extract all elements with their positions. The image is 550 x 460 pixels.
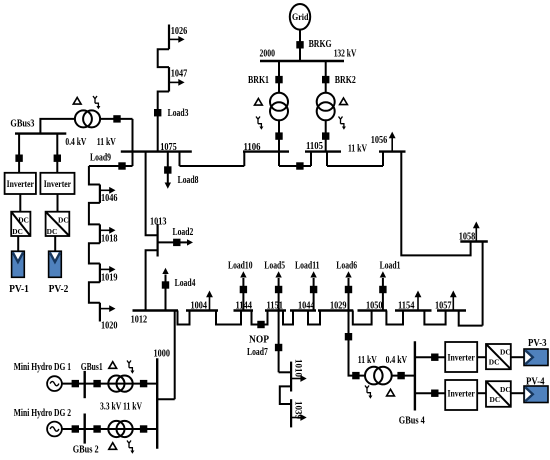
delta T-DG2 xyxy=(109,443,117,450)
transformer T1 xyxy=(270,93,288,111)
breaker on 11kV line xyxy=(113,115,120,122)
breaker Load2 xyxy=(173,239,180,246)
svg-text:1151: 1151 xyxy=(267,300,284,311)
svg-text:Grid: Grid xyxy=(292,13,309,23)
bus 1047 xyxy=(168,67,170,91)
svg-text:Load6: Load6 xyxy=(336,261,357,272)
wire T to GBus4 xyxy=(392,375,415,377)
svg-text:GBus3: GBus3 xyxy=(10,118,34,129)
wire 1019 to 1020 xyxy=(89,282,100,302)
bus 1050 xyxy=(358,309,388,311)
wire 1105 to 1056 link xyxy=(327,165,383,167)
bus 1020 xyxy=(99,303,101,322)
wire GBus3 drop left to inverter 1 xyxy=(18,134,20,173)
svg-text:BRK2: BRK2 xyxy=(335,75,356,86)
svg-text:0.4 kV: 0.4 kV xyxy=(65,137,87,148)
wye ground T-GBus4 xyxy=(365,386,372,399)
svg-text:DC: DC xyxy=(500,347,511,356)
wye ground GBus3 transformer xyxy=(93,96,100,109)
svg-text:GBus1: GBus1 xyxy=(81,362,103,373)
wire 1018 to 1019 xyxy=(89,243,100,263)
svg-text:DC: DC xyxy=(12,227,23,236)
svg-text:1000: 1000 xyxy=(154,348,171,359)
bus 1000 xyxy=(156,358,158,448)
PV-4 panel xyxy=(524,376,548,402)
svg-text:GBus 2: GBus 2 xyxy=(73,444,99,455)
svg-text:1026: 1026 xyxy=(171,26,188,37)
delta T-GBus4 xyxy=(387,389,395,396)
wire U-link 1050 to 1154 xyxy=(386,311,403,325)
delta T1 xyxy=(255,99,263,106)
bus 1106 xyxy=(243,150,289,152)
wire drop to bus 1075 and Load9 line xyxy=(132,119,134,166)
load Load5 xyxy=(264,261,285,311)
wire U-link 1057 to 1058 riser xyxy=(459,311,483,326)
svg-text:Load5: Load5 xyxy=(264,261,285,272)
arrow up on 1056 xyxy=(389,132,396,152)
wire U-link 1144 to 1151 with NOP xyxy=(252,311,268,325)
wire 1026 to 1047 xyxy=(158,49,169,67)
breaker on 1029 drop xyxy=(345,333,352,340)
PV-1 panel xyxy=(9,251,29,295)
svg-text:1044: 1044 xyxy=(298,300,315,311)
wire U-link 1004 to 1144 xyxy=(216,311,241,325)
arrow up on 1058 xyxy=(473,222,480,242)
breaker Load8 xyxy=(164,166,171,173)
wire branch BRK1 xyxy=(278,61,280,93)
svg-text:Mini Hydro DG 1: Mini Hydro DG 1 xyxy=(14,362,71,373)
wire inverter1 to dcdc1 xyxy=(19,194,21,212)
wire tie rise to 1105 xyxy=(310,152,312,166)
breaker inverter 2 xyxy=(54,155,61,162)
svg-text:11 kV: 11 kV xyxy=(348,143,368,154)
bus 1029 xyxy=(318,309,353,311)
svg-text:1020: 1020 xyxy=(101,321,118,332)
svg-text:Load9: Load9 xyxy=(90,152,111,163)
bus GBus1 xyxy=(83,371,85,398)
svg-text:DC: DC xyxy=(500,385,511,394)
wire 1106 to 1075 link xyxy=(180,165,245,167)
wire 1047 to bus 1075 xyxy=(158,92,169,152)
breaker Load7 xyxy=(275,344,282,351)
wire DG2 row xyxy=(62,428,157,430)
wire 1058 riser down to chain xyxy=(482,242,484,326)
transformer T2 xyxy=(317,93,335,111)
svg-text:1056: 1056 xyxy=(371,135,388,146)
bus 1044 xyxy=(290,309,316,311)
svg-text:DC: DC xyxy=(58,216,69,225)
bus 1154 xyxy=(395,309,432,311)
wire 1056 down to 1058 xyxy=(401,152,470,256)
wire to bus 1010 xyxy=(279,371,292,373)
svg-text:DC: DC xyxy=(18,216,29,225)
bus 1151 xyxy=(265,309,286,311)
svg-text:1154: 1154 xyxy=(398,300,415,311)
svg-text:Load10: Load10 xyxy=(228,261,253,272)
arrow feeder 1046 xyxy=(100,187,116,194)
breaker DG2-GBus2 xyxy=(72,425,79,432)
arrow feeder 1019 xyxy=(100,266,116,273)
dc-dc converter 2 xyxy=(46,212,70,236)
breaker BRK1 xyxy=(275,76,282,83)
wire U-link 1012 to 1004 xyxy=(178,311,190,325)
bus GBus3 xyxy=(15,132,66,134)
bus 1012 xyxy=(133,309,179,311)
svg-text:Load3: Load3 xyxy=(168,108,189,119)
svg-text:0.4 kV: 0.4 kV xyxy=(386,355,408,366)
svg-text:PV-2: PV-2 xyxy=(49,284,69,295)
breaker T-GBus4 0.4kV xyxy=(397,372,404,379)
svg-text:1010: 1010 xyxy=(293,359,303,378)
wire Load2 xyxy=(158,241,174,243)
bus 1026 xyxy=(168,25,170,50)
arrow up on 1057 xyxy=(450,291,457,311)
wire T 11kV side xyxy=(100,118,132,120)
wire T1 to bus 1106 xyxy=(278,120,280,151)
wire Load9 line xyxy=(89,165,133,167)
bus 1105 xyxy=(305,150,341,152)
svg-text:DC: DC xyxy=(47,227,58,236)
wire inverter3 to dcdc3 xyxy=(477,356,486,358)
wye ground T-DG1 xyxy=(127,361,134,374)
svg-text:Mini Hydro DG 2: Mini Hydro DG 2 xyxy=(14,408,71,419)
wire 1075 down to 1013 xyxy=(146,152,158,236)
breaker below T2 xyxy=(322,132,329,139)
wire DG1 row xyxy=(62,383,157,385)
wire 1106 left drop xyxy=(243,152,245,166)
svg-text:Load11: Load11 xyxy=(295,261,320,272)
wire dcdc4 to PV-4 xyxy=(511,392,524,394)
svg-text:NOP: NOP xyxy=(249,334,269,345)
transformer T-DG1 xyxy=(108,376,132,392)
svg-text:Inverter: Inverter xyxy=(7,179,34,189)
delta T2 xyxy=(340,98,348,105)
wire Grid to bus 2000 xyxy=(299,30,301,61)
breaker tie xyxy=(296,162,303,169)
wire U-link 1029 to 1050 xyxy=(353,311,372,325)
generator Mini Hydro DG 2 xyxy=(47,422,62,437)
svg-text:1047: 1047 xyxy=(171,68,188,79)
transformer T-GBus4 xyxy=(365,367,392,385)
dc-dc converter 3 xyxy=(486,344,511,369)
svg-text:Load4: Load4 xyxy=(175,278,196,289)
bus 1019 xyxy=(99,264,101,283)
arrow feeder 1018 xyxy=(100,227,116,234)
breaker NOP xyxy=(257,321,264,328)
breaker Load3 xyxy=(154,109,161,116)
wire Load7 drop from 1151 xyxy=(278,311,280,373)
wire dcdc2 to PV-2 xyxy=(54,236,56,251)
wire 1010 to 1039 xyxy=(280,386,291,404)
wire tie line 1106-1105 xyxy=(279,165,311,167)
svg-text:PV-3: PV-3 xyxy=(528,338,547,349)
wire T to GBus3 xyxy=(40,119,75,134)
wire GBus4 to inverter 3 xyxy=(415,356,445,358)
svg-text:1105: 1105 xyxy=(306,141,323,152)
wire 1013 to bus 1012 xyxy=(146,250,158,310)
inverter 1 box xyxy=(5,173,36,194)
svg-text:1004: 1004 xyxy=(191,300,208,311)
load Load10 xyxy=(228,261,253,311)
svg-text:BRKG: BRKG xyxy=(309,39,332,50)
wire tie 1106 drop xyxy=(278,152,280,166)
arrow feeder 1039 xyxy=(291,414,307,421)
svg-text:1046: 1046 xyxy=(101,193,118,204)
svg-text:Load7: Load7 xyxy=(247,347,268,358)
svg-text:PV-1: PV-1 xyxy=(9,284,29,295)
wire U-link 1044 to 1029 xyxy=(308,311,320,325)
wire 1046 to 1018 xyxy=(89,203,100,225)
bus 1075 xyxy=(121,150,192,152)
load Load11 xyxy=(295,261,320,311)
wire inverter4 to dcdc4 xyxy=(477,392,486,394)
wire GBus3 drop right to inverter 2 xyxy=(56,134,58,173)
bus 1010 xyxy=(290,362,292,392)
breaker T-GBus4 11kV xyxy=(352,372,359,379)
breaker GBus1-T xyxy=(93,380,100,387)
wire 1105 right drop xyxy=(326,152,328,166)
breaker BRKG xyxy=(296,41,303,48)
breaker BRK2 xyxy=(322,76,329,83)
breaker DG1-GBus1 xyxy=(72,380,79,387)
bus 1004 xyxy=(186,309,218,311)
svg-text:Load1: Load1 xyxy=(380,261,401,272)
svg-text:1029: 1029 xyxy=(330,300,347,311)
svg-text:2000: 2000 xyxy=(260,48,276,59)
bus 1056 xyxy=(379,150,406,152)
svg-text:1013: 1013 xyxy=(150,216,167,227)
svg-text:1106: 1106 xyxy=(244,142,261,153)
delta GBus3 transformer xyxy=(73,98,81,105)
bus 1039 xyxy=(290,399,292,427)
bus 2000 xyxy=(260,60,344,62)
svg-text:1075: 1075 xyxy=(160,142,177,153)
svg-text:BRK1: BRK1 xyxy=(248,75,269,86)
svg-text:GBus 4: GBus 4 xyxy=(399,415,425,426)
wye ground T-DG2 xyxy=(127,441,134,454)
transformer T-DG2 xyxy=(108,421,132,437)
load Load1 xyxy=(379,261,400,311)
wire 1075 right drop to 1106 link xyxy=(179,152,181,166)
svg-text:11 kV: 11 kV xyxy=(97,137,117,148)
svg-text:Inverter: Inverter xyxy=(448,388,475,398)
svg-text:1057: 1057 xyxy=(435,300,452,311)
arrow down Load8 xyxy=(165,174,171,189)
wire rise to 1056 xyxy=(382,152,384,166)
wire link to bus 1000 xyxy=(157,398,175,400)
wire U-link 1151 to 1044 xyxy=(283,311,293,325)
dc-dc converter 4 xyxy=(486,381,511,407)
PV-2 panel xyxy=(49,251,69,295)
svg-text:Load2: Load2 xyxy=(173,227,194,238)
bus GBus 4 xyxy=(414,341,416,410)
svg-text:132 kV: 132 kV xyxy=(334,48,357,59)
generator Mini Hydro DG 1 xyxy=(47,376,62,391)
wire dcdc1 to PV-1 xyxy=(17,236,19,251)
wye ground T1 xyxy=(256,117,263,130)
breaker below T1 xyxy=(275,132,282,139)
wire branch BRK2 xyxy=(325,61,327,93)
wire Load8 drop xyxy=(167,152,169,174)
bus GBus2 xyxy=(83,414,85,444)
wire dcdc3 to PV-3 xyxy=(511,356,524,358)
breaker inverter 4 xyxy=(431,390,438,397)
breaker inverter 1 xyxy=(15,155,22,162)
arrow Load2 xyxy=(180,239,193,245)
svg-text:1019: 1019 xyxy=(101,273,118,284)
svg-text:1058: 1058 xyxy=(459,231,476,242)
bus 1046 xyxy=(99,185,101,203)
inverter 4 box xyxy=(445,380,477,410)
delta T-DG1 xyxy=(109,362,117,369)
inverter 3 box xyxy=(445,342,477,372)
svg-text:DC: DC xyxy=(489,357,500,366)
breaker T-1000 row1 xyxy=(140,380,147,387)
wire inverter2 to dcdc2 xyxy=(57,194,59,212)
wire 1029 drop to T-GBus4 xyxy=(349,311,365,376)
arrow feeder 1020 xyxy=(100,305,116,312)
bus 1144 xyxy=(234,309,254,311)
wye ground T2 xyxy=(339,117,346,130)
svg-text:Load8: Load8 xyxy=(178,175,199,186)
arrow up on 1004 xyxy=(206,291,213,311)
svg-text:11 kV: 11 kV xyxy=(358,355,378,366)
svg-text:Inverter: Inverter xyxy=(44,179,71,189)
inverter 2 box xyxy=(40,173,74,194)
svg-text:3.3 kV 11 kV: 3.3 kV 11 kV xyxy=(100,402,143,413)
bus 1058 xyxy=(460,240,488,242)
bus 1018 xyxy=(99,224,101,243)
breaker T-1000 row2 xyxy=(140,425,147,432)
arrow feeder 1026 xyxy=(169,36,185,43)
PV-3 panel xyxy=(524,338,548,366)
wire U-link 1154 to 1057 xyxy=(424,311,445,325)
svg-text:Inverter: Inverter xyxy=(448,352,475,362)
bus 1057 xyxy=(437,309,466,311)
wire T2 to bus 1105 xyxy=(325,120,327,151)
load Load4 xyxy=(162,268,196,311)
svg-text:1018: 1018 xyxy=(101,234,118,245)
transformer T-GBus3 xyxy=(75,110,92,127)
bus 1013 xyxy=(157,224,159,257)
arrow up on 1154 xyxy=(415,291,422,311)
arrow feeder 1047 xyxy=(169,79,185,86)
load Load6 xyxy=(336,261,357,311)
grid source Grid xyxy=(290,4,310,30)
svg-text:DC: DC xyxy=(490,395,501,404)
dc-dc converter 1 xyxy=(11,212,30,236)
wire feeder rail to 1046 xyxy=(89,166,100,185)
arrow feeder 1010 xyxy=(291,375,307,382)
breaker inverter 3 xyxy=(431,354,438,361)
svg-text:1050: 1050 xyxy=(366,300,383,311)
wire GBus4 to inverter 4 xyxy=(415,392,445,394)
wire 1012 riser down to 1000 link xyxy=(174,311,176,400)
breaker Load9 xyxy=(118,162,125,169)
svg-text:1012: 1012 xyxy=(131,314,148,325)
breaker GBus2-T xyxy=(93,425,100,432)
